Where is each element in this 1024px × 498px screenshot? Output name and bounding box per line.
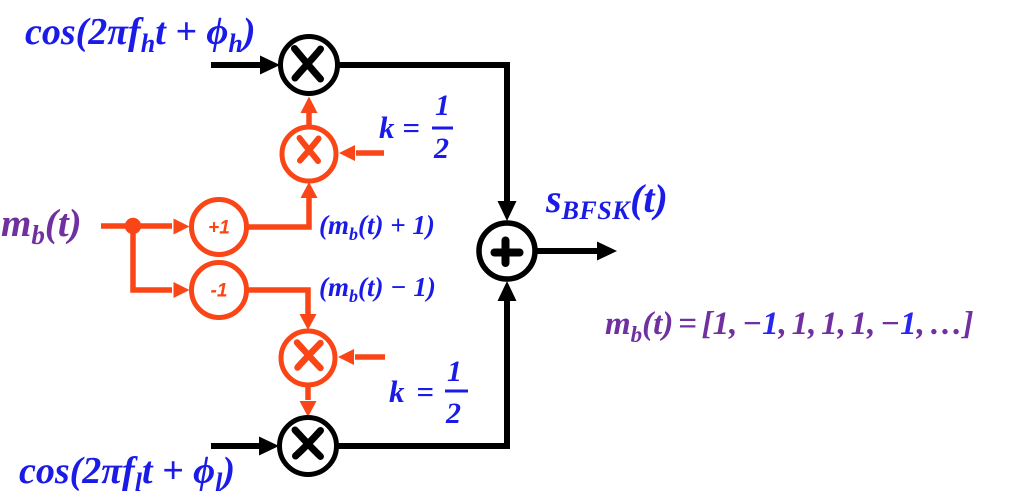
wire input arrow into M4 <box>211 437 279 456</box>
svg-text:k =: k = <box>389 374 434 409</box>
summing junction (adder) <box>479 223 535 279</box>
svg-text:2: 2 <box>433 132 449 165</box>
svg-text:2: 2 <box>445 397 461 430</box>
label k = 1/2 (upper) <box>379 89 453 165</box>
label cos(2*pi*f_h*t + phi_h) <box>25 11 256 58</box>
label k = 1/2 (lower) <box>389 355 468 430</box>
multiplier M4 (low-frequency mixer) <box>280 418 337 475</box>
label m_b(t) input <box>1 202 82 250</box>
wire M1 output to summing junction (top path) <box>338 65 517 221</box>
wire input stub to junction <box>101 223 133 229</box>
label m_b(t) sequence = [1, -1, 1, 1, 1, -1, ...] <box>605 306 974 347</box>
label (m_b(t) + 1) <box>319 210 435 244</box>
label cos(2*pi*f_l*t + phi_l) <box>19 450 235 497</box>
wire gain k arrow into M2 (from right) <box>339 145 384 161</box>
label (m_b(t) - 1) <box>319 272 436 306</box>
multiplier M3 (lower orange mixer) <box>281 331 335 385</box>
wire +1 output up into M2 <box>249 182 318 227</box>
wire M4 output to summing junction (bottom path) <box>337 281 517 446</box>
svg-text:-1: -1 <box>211 281 228 302</box>
label s_BFSK(t) output <box>545 176 668 225</box>
svg-text:(mb(t) + 1): (mb(t) + 1) <box>319 210 435 244</box>
wire M2 output up into M1 <box>301 97 318 127</box>
wire input arrow into multiplier M1 <box>211 56 280 75</box>
block -1 (offset subtractor circle) <box>192 263 247 318</box>
wire output arrow s_BFSK <box>536 242 617 261</box>
wire -1 output down into M3 <box>249 290 317 330</box>
wire gain k arrow into M3 (from right) <box>338 349 385 365</box>
node junction dot <box>125 218 141 234</box>
wire junction down and to -1 block <box>133 226 190 298</box>
svg-text:+1: +1 <box>208 218 230 239</box>
multiplier M1 (high-frequency mixer) <box>281 37 338 94</box>
svg-text:cos(2πflt + ϕl): cos(2πflt + ϕl) <box>19 450 235 497</box>
svg-text:k =: k = <box>379 110 420 145</box>
svg-text:cos(2πfht + ϕh): cos(2πfht + ϕh) <box>25 11 256 58</box>
svg-text:(mb(t) − 1): (mb(t) − 1) <box>319 272 436 306</box>
wire M3 output down into M4 <box>300 386 317 417</box>
multiplier M2 (upper orange mixer) <box>282 127 336 181</box>
wire junction to +1 block <box>133 219 190 235</box>
svg-text:1: 1 <box>447 355 462 388</box>
svg-text:1: 1 <box>435 89 450 122</box>
svg-text:mb(t) = [1, −1, 1, 1, 1, −1, …: mb(t) = [1, −1, 1, 1, 1, −1, …] <box>605 306 974 347</box>
block +1 (offset adder circle) <box>192 200 247 255</box>
